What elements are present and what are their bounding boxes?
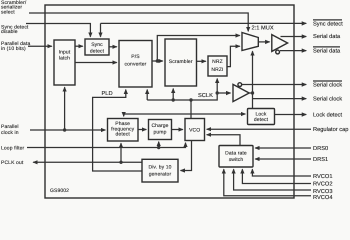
wire parallel clock up into input latch bottom (64, 87, 66, 130)
sync detect block (85, 39, 109, 55)
scrambler block (165, 39, 197, 86)
wire parallel data in to Input latch (28, 45, 52, 47)
wire P/S converter to scrambler (152, 60, 163, 62)
svg-text:PCLK out: PCLK out (1, 160, 24, 166)
wire phase detect to lock detect (124, 113, 246, 115)
wire VCO output up to SCLK line (190, 100, 192, 119)
outer chip boundary GS9002 (45, 5, 294, 198)
svg-text:NRZI: NRZI (211, 67, 223, 73)
svg-text:Serial clock: Serial clock (313, 82, 342, 89)
wire serial data buffer to serial data pin (281, 36, 307, 38)
wire DRS0 into data rate switch (255, 147, 311, 149)
wire loop filter line (27, 143, 186, 148)
svg-text:SCLK: SCLK (198, 93, 213, 99)
wire sync detect disable into Sync detect box top (26, 24, 90, 37)
wire SCLK up into P/S converter bottom (146, 90, 148, 100)
wire charge pump to VCO (172, 129, 183, 131)
wire down into phase frequency detect top (123, 114, 125, 116)
wire serial clock to pin (253, 98, 307, 100)
wire NRZ/NRZI to 2:1 MUX lower input (227, 46, 240, 66)
node junction loop filter to charge pump (157, 146, 160, 149)
VCO block (185, 119, 205, 141)
svg-text:DRS1: DRS1 (313, 157, 328, 163)
wire scrambler bypass to 2:1 MUX upper input (157, 36, 240, 62)
wire RVCO3 into data rate switch (234, 169, 311, 190)
wire input latch to P/S converter (75, 62, 117, 64)
svg-text:Regulator cap: Regulator cap (313, 126, 348, 133)
svg-text:NRZ: NRZ (212, 59, 223, 65)
svg-text:Serial data: Serial data (313, 33, 341, 40)
wire RVCO1 into data rate switch (252, 169, 311, 176)
node junction scrambler bypass (156, 59, 159, 62)
phase frequency detect block (108, 119, 139, 142)
svg-text:detect: detect (90, 48, 105, 54)
wire VCO down to div by 10 generator (181, 141, 192, 171)
2:1 MUX (242, 33, 258, 51)
wire SCLK up into scrambler bottom (172, 89, 174, 100)
svg-text:2:1 MUX: 2:1 MUX (252, 25, 274, 31)
NRZ/NRZI block (208, 56, 227, 76)
wire sync detect to P/S converter (109, 46, 117, 48)
charge pump block (149, 120, 172, 140)
input latch U1 (54, 40, 75, 85)
svg-text:converter: converter (125, 61, 147, 67)
inverter bubble on serial clock buffer (238, 83, 242, 87)
wire input latch to sync detect (75, 45, 83, 47)
svg-text:latch: latch (59, 56, 70, 62)
svg-text:in (10 bits): in (10 bits) (1, 46, 26, 52)
wire lock detect output to pin (275, 114, 307, 116)
wire scrambler/serializer select to 2:1 MUX (29, 13, 248, 31)
wire down into sync detect box top right (100, 23, 102, 36)
wire DRS1 into data rate switch (255, 158, 311, 160)
node junction SCLK to NRZ (216, 91, 219, 94)
svg-text:Data rate: Data rate (225, 150, 247, 156)
wire inverted serial clock to pin (242, 84, 307, 86)
svg-text:RVCO1: RVCO1 (313, 174, 333, 180)
svg-text:PLD: PLD (102, 91, 113, 97)
svg-text:DRS0: DRS0 (313, 146, 328, 152)
svg-text:switch: switch (229, 157, 244, 163)
svg-text:Sync detect: Sync detect (313, 20, 343, 27)
wire RVCO4 into data rate switch (224, 169, 311, 196)
svg-text:Lock detect: Lock detect (313, 112, 343, 119)
serial clock output buffer (233, 84, 249, 101)
wire sync detect output to sync detect pin (101, 22, 307, 24)
wire scrambler to NRZ/NRZI (197, 60, 206, 62)
wire PLD from div-by-10 to P/S converter (93, 90, 142, 171)
wire phase frequency detect to charge pump (138, 129, 146, 131)
svg-text:GS9002: GS9002 (50, 188, 69, 194)
wire PCLK out from div-by-10 (33, 161, 142, 163)
svg-text:detect: detect (254, 117, 269, 123)
svg-text:RVCO4: RVCO4 (313, 195, 333, 201)
data rate switch block (219, 146, 253, 168)
node junction SCLK to scrambler (172, 98, 175, 101)
svg-text:clock in: clock in (1, 130, 19, 136)
wire loop filter up into charge pump bottom (158, 142, 160, 148)
node junction VCO to SCLK line (189, 98, 192, 101)
svg-text:P/S: P/S (131, 54, 140, 60)
wire vertical mux bottom input down to lock detect (252, 51, 254, 108)
serial data output buffer (272, 35, 288, 52)
svg-text:detect: detect (116, 132, 131, 138)
wire serial clock buffer output (249, 92, 252, 94)
svg-text:Charge: Charge (151, 123, 168, 129)
wire PCLK up into phase frequency detect bottom (120, 143, 122, 162)
wire data rate switch up to VCO lower input (207, 135, 240, 146)
P/S converter block (119, 41, 152, 88)
svg-text:Div. by 10: Div. by 10 (148, 164, 171, 170)
wire parallel clock in to phase frequency detect (30, 129, 105, 131)
wire inverted serial data to pin (280, 50, 306, 52)
svg-text:Serial data: Serial data (313, 47, 341, 54)
inverter bubble on serial data buffer (276, 50, 280, 54)
node junction PCLK to phase frequency detect (119, 161, 122, 164)
div by 10 generator block (142, 159, 178, 182)
node junction parallel clock to input latch (63, 128, 66, 131)
svg-text:Serial clock: Serial clock (313, 96, 342, 103)
lock detect block (248, 109, 275, 125)
svg-text:select: select (1, 9, 15, 15)
svg-text:Sync: Sync (91, 42, 103, 48)
wire regulator cap to VCO (207, 128, 311, 130)
wire 2:1 MUX to serial data buffer (258, 41, 269, 43)
svg-text:disable: disable (1, 29, 18, 35)
wire SCLK up into NRZ/NRZI bottom (216, 79, 218, 93)
svg-text:VCO: VCO (189, 128, 200, 134)
svg-text:RVCO2: RVCO2 (313, 182, 333, 188)
wire RVCO2 into data rate switch (242, 169, 311, 183)
node junction serial clock (251, 91, 254, 94)
svg-text:pump: pump (154, 129, 167, 135)
svg-text:Scrambler: Scrambler (169, 59, 193, 65)
svg-text:Loop filter: Loop filter (1, 146, 24, 152)
SCLK distribution wire (147, 93, 230, 100)
svg-text:generator: generator (149, 172, 172, 178)
